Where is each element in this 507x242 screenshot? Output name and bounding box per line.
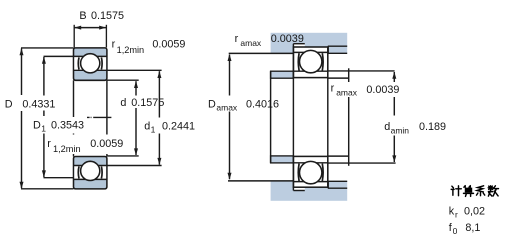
dimension B arrow left — [74, 26, 81, 30]
housing fillet notch edge, upper — [293, 43, 304, 45]
svg-text:amax: amax — [216, 103, 238, 113]
housing shoulder face, lower right — [327, 181, 329, 188]
dimension damin line — [393, 72, 395, 82]
svg-text:D: D — [208, 98, 216, 110]
ball, upper section — [81, 54, 100, 73]
svg-text:d: d — [144, 120, 150, 132]
label d value — [119, 96, 165, 110]
dimension d arrow up — [134, 81, 138, 88]
dimension d line — [135, 81, 137, 95]
svg-text:0: 0 — [453, 226, 458, 236]
dimension D arrow down — [20, 182, 24, 189]
svg-text:r: r — [112, 39, 116, 51]
svg-text:B: B — [79, 10, 86, 22]
svg-text:0.2441: 0.2441 — [162, 120, 195, 132]
svg-text:d: d — [120, 97, 126, 109]
bearing section in housing, lower — [294, 156, 328, 187]
svg-text:1,2min: 1,2min — [53, 144, 81, 154]
svg-text:0.0059: 0.0059 — [152, 39, 185, 51]
housing shoulder edge Da level, lower left — [228, 180, 293, 182]
extension line damin bottom — [328, 162, 396, 164]
ball, lower section — [81, 161, 100, 180]
svg-text:D: D — [5, 98, 13, 110]
svg-text:0.4331: 0.4331 — [22, 98, 55, 110]
extension line d bottom — [107, 155, 139, 157]
housing fillet notch edge, lower — [293, 190, 304, 192]
svg-text:1,2min: 1,2min — [117, 45, 145, 55]
housing bore line, upper right — [328, 45, 347, 47]
shaft shoulder / bearing inner face line — [292, 53, 294, 180]
shaft seat surface, lower — [328, 155, 349, 157]
raceway land, upper mounted left — [297, 53, 300, 70]
svg-text:0.0039: 0.0039 — [271, 33, 304, 45]
shaft right end face (upper part) — [348, 68, 350, 84]
dimension Damax arrow up — [228, 54, 232, 61]
bearing right face line (upper part) — [106, 80, 108, 135]
outer+inner ring section, lower half — [74, 157, 107, 189]
svg-text:r: r — [331, 83, 335, 95]
ball, lower mounted section — [300, 161, 322, 183]
svg-text:8,1: 8,1 — [465, 222, 480, 234]
label ramax middle — [329, 82, 401, 98]
label D1 value — [32, 117, 85, 134]
raceway land, upper left — [77, 57, 80, 69]
ball, upper mounted section — [300, 50, 322, 72]
extension line D top — [21, 47, 74, 49]
svg-text:0.3543: 0.3543 — [51, 120, 84, 132]
shaft shoulder section, upper — [271, 71, 294, 78]
svg-text:0.189: 0.189 — [419, 121, 446, 133]
svg-text:r: r — [455, 210, 458, 220]
dimension D1 arrow down — [42, 170, 46, 177]
dimension damin arrow down — [392, 155, 396, 162]
label B value — [79, 10, 124, 22]
label ramax upper — [235, 33, 304, 48]
svg-text:amax: amax — [240, 38, 262, 48]
housing bore line, lower right — [328, 187, 347, 189]
housing section, upper — [271, 33, 348, 54]
dimension D1 arrow up — [42, 57, 46, 64]
svg-text:k: k — [449, 205, 455, 217]
bearing right face line (lower part) — [106, 149, 108, 157]
svg-text:0.4016: 0.4016 — [246, 98, 279, 110]
extension line D bottom — [21, 188, 74, 190]
dimension damin arrow up — [392, 72, 396, 79]
svg-text:r: r — [47, 138, 51, 150]
raceway land, lower mounted right — [321, 164, 324, 181]
dimension B arrow right — [99, 26, 106, 30]
housing shoulder face, upper right — [327, 46, 329, 53]
dimension D line — [21, 49, 23, 96]
svg-text:amin: amin — [391, 125, 410, 135]
svg-text:amax: amax — [336, 88, 358, 98]
svg-text:1: 1 — [151, 124, 156, 134]
raceway land, upper right — [100, 57, 103, 69]
label f0 factor — [449, 222, 481, 236]
inner ring shoulder line d1 level, upper — [74, 69, 162, 71]
heading: calculation factors (CJK glyph paths) — [451, 186, 498, 197]
svg-text:0.0039: 0.0039 — [366, 84, 399, 96]
raceway land, upper mounted right — [321, 53, 324, 70]
axis centerline dash-dot — [87, 116, 111, 118]
svg-text:1: 1 — [41, 124, 46, 134]
bearing left face line — [73, 80, 75, 156]
raceway shoulder line D1 level, lower — [74, 178, 107, 180]
label kr factor — [449, 205, 485, 219]
raceway land, lower right — [100, 166, 103, 178]
shaft seat surface, upper — [328, 77, 349, 79]
raceway land, lower left — [77, 166, 80, 178]
raceway land, lower mounted left — [297, 164, 300, 181]
svg-text:0,02: 0,02 — [464, 205, 485, 217]
bearing section in housing, upper — [294, 47, 328, 78]
bearing right face line, mid section — [327, 78, 329, 157]
svg-text:D: D — [33, 120, 41, 132]
housing shoulder face, upper left — [292, 44, 294, 54]
housing shoulder edge Da level, upper left — [229, 52, 294, 54]
dimension d1 line — [157, 71, 161, 165]
housing section, lower — [271, 181, 348, 201]
dimension Damax arrow down — [228, 173, 232, 180]
label damin value — [383, 117, 448, 136]
dimension B line — [74, 27, 106, 29]
raceway shoulder line D1 level, upper — [44, 55, 107, 57]
label d1 value — [143, 118, 195, 135]
svg-text:0.1575: 0.1575 — [91, 10, 124, 22]
extension line B right — [105, 25, 107, 48]
label r1,2min lower — [46, 135, 126, 155]
dimension D arrow up — [20, 48, 24, 55]
extension line d top — [107, 79, 139, 81]
dimension d arrow down — [134, 148, 138, 155]
housing shoulder edge Da level, upper right — [328, 52, 347, 54]
label D value — [4, 96, 62, 111]
housing shoulder face, lower left — [292, 181, 294, 191]
label Damax value — [207, 96, 280, 113]
extension line B left — [73, 25, 75, 48]
shaft shoulder left end face — [270, 71, 272, 163]
svg-text:d: d — [384, 121, 390, 133]
svg-text:r: r — [235, 33, 239, 45]
shaft right end face (lower part) — [348, 97, 350, 166]
dimension D1 line — [43, 57, 45, 116]
extension line D1 bottom — [44, 177, 74, 179]
extension line damin top — [328, 70, 395, 72]
label r1,2min upper — [112, 39, 186, 55]
housing shoulder edge Da level, lower right — [328, 180, 347, 182]
shaft shoulder section, lower — [271, 156, 294, 163]
outer+inner ring section, upper half — [74, 48, 107, 80]
inner ring shoulder line d1 level, lower — [74, 165, 162, 167]
dimension Damax line — [229, 55, 231, 96]
svg-text:0.0059: 0.0059 — [90, 138, 123, 150]
